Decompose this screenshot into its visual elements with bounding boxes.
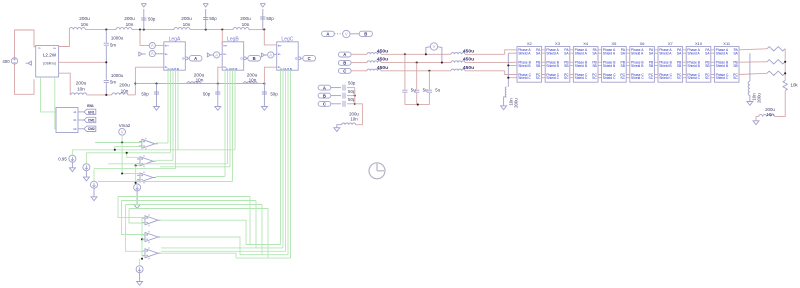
green: op2 +in feed xyxy=(127,153,140,158)
node dot op5 in xyxy=(141,238,143,240)
pin stub U2 out2 xyxy=(78,119,84,121)
wire: phase row A through blocks xyxy=(517,49,739,51)
wire: cap C bottom xyxy=(428,93,430,105)
green: midband corner 3 xyxy=(261,205,263,255)
wire: cap B to bus xyxy=(347,95,355,97)
green: Vma2 tail xyxy=(121,135,123,142)
ground L9 xyxy=(501,106,507,110)
capacitor C1 50p riser xyxy=(143,9,145,30)
capacitor C11 50p xyxy=(343,101,345,107)
svg-text:50p: 50p xyxy=(148,16,156,21)
node dot V2 right xyxy=(441,62,443,64)
svg-text:SA: SA xyxy=(592,52,597,56)
svg-text:200u: 200u xyxy=(79,16,90,21)
svg-text:X6: X6 xyxy=(640,41,646,46)
wire: V2 right lead xyxy=(438,47,442,63)
wire: LegA gate drop from rail xyxy=(140,30,149,46)
ammeter A1 xyxy=(149,43,155,49)
svg-text:B: B xyxy=(343,60,346,65)
node box A low xyxy=(318,85,331,90)
svg-text:SC: SC xyxy=(649,76,654,80)
green: left vert 2 xyxy=(122,201,143,235)
inductor LB2 450u coil xyxy=(451,61,465,63)
green: op4 -in stub xyxy=(142,222,145,224)
green: op5 +in stub xyxy=(142,234,145,236)
inductor L10 coil xyxy=(759,115,775,117)
svg-text:10n: 10n xyxy=(249,78,257,83)
svg-text:SB: SB xyxy=(592,64,597,68)
green: LegC bottom run 2 xyxy=(161,247,283,249)
node box C xyxy=(303,56,316,61)
green: midband corner 2 xyxy=(255,201,257,248)
node dot top rail cap C1 xyxy=(143,29,145,31)
wire: jog rail C down to Phase C xyxy=(505,71,517,75)
svg-text:Shield C: Shield C xyxy=(603,76,616,80)
svg-text:SC: SC xyxy=(564,76,569,80)
op-amp U7 xyxy=(142,231,161,243)
svg-text:CM1: CM1 xyxy=(88,118,95,122)
svg-text:10n: 10n xyxy=(196,78,204,83)
green: midband 1 xyxy=(118,196,250,198)
svg-text:SA: SA xyxy=(564,52,569,56)
wire: L12 to ground xyxy=(337,125,342,128)
block X11 cable section xyxy=(714,47,739,83)
inductor LC1 450u coil xyxy=(367,69,381,71)
op-amp U5 xyxy=(137,172,156,184)
svg-text:X11: X11 xyxy=(723,41,731,46)
node dot shield bus SC xyxy=(507,77,509,79)
svg-text:Shield B: Shield B xyxy=(631,64,644,68)
node dot low bus B xyxy=(354,95,356,97)
wire: rail B to Phase B xyxy=(505,61,517,63)
inductor L3 coil xyxy=(174,28,190,30)
ground L12 xyxy=(334,128,340,132)
svg-text:X3: X3 xyxy=(555,41,561,46)
wire: A3 to LegB pin2 xyxy=(220,53,223,55)
wire: source loop bottom xyxy=(15,64,35,94)
svg-text:B: B xyxy=(323,93,326,98)
wire: box A to cap xyxy=(331,87,341,89)
node box B low xyxy=(318,93,331,98)
node dot bottom rail cap column xyxy=(105,94,107,96)
capacitor C3 50p plates xyxy=(260,17,265,19)
node dot low bus C xyxy=(354,103,356,105)
svg-text:50p: 50p xyxy=(266,16,274,21)
resistor R2 xyxy=(767,60,785,64)
svg-text:200u: 200u xyxy=(514,98,519,108)
green: op5 -in feed xyxy=(142,239,145,241)
green: midband corner 4 xyxy=(267,209,269,259)
voltage source V1 400 xyxy=(11,58,17,64)
wire: tap A down xyxy=(404,54,406,89)
svg-text:1000u: 1000u xyxy=(111,36,124,41)
wire: box C to cap xyxy=(331,103,341,105)
capacitor C8 50p stem xyxy=(263,84,265,107)
wire: U1 out to top rail riser xyxy=(59,30,70,47)
capacitor C2 50p riser xyxy=(205,9,207,30)
svg-text:EN1: EN1 xyxy=(87,104,94,108)
wire: tap B down xyxy=(416,63,418,90)
inductor L9 shield coil xyxy=(505,87,506,97)
wire: cap B bottom xyxy=(416,93,418,105)
svg-text:10k: 10k xyxy=(791,82,799,87)
svg-text:Vma2: Vma2 xyxy=(119,123,131,128)
ground B1 xyxy=(69,168,75,172)
wire: V2 left lead xyxy=(426,47,430,55)
svg-text:200u: 200u xyxy=(181,16,192,21)
wire: tap C down xyxy=(428,71,430,90)
node dot right bus R3 xyxy=(784,72,786,74)
wire: B2 to ground xyxy=(85,171,87,177)
voltmeter V1 circle xyxy=(343,30,350,37)
resistor R1 xyxy=(767,47,785,51)
svg-text:Shield A: Shield A xyxy=(546,52,559,56)
wire: rail C to coil xyxy=(351,70,367,72)
ammeter A2 xyxy=(149,51,155,57)
svg-text:10n: 10n xyxy=(242,22,250,27)
ammeter A4 xyxy=(268,52,274,58)
green: op3 -in feed xyxy=(136,180,140,182)
capacitor CB 5u plates xyxy=(414,90,419,92)
wire: top rail L2-L3 xyxy=(132,29,174,31)
capacitor CA 5u plates xyxy=(402,90,407,92)
wire: A to voltmeter dotted xyxy=(334,33,342,35)
svg-text:1000u: 1000u xyxy=(111,73,124,78)
svg-text:SB: SB xyxy=(536,64,541,68)
svg-text:L2.2W: L2.2W xyxy=(43,53,57,58)
svg-text:SB: SB xyxy=(705,64,710,68)
svg-text:200u: 200u xyxy=(119,83,130,88)
svg-text:450u: 450u xyxy=(377,57,388,63)
wire: B3 to ground xyxy=(93,188,95,197)
svg-text:in-: in- xyxy=(278,52,281,56)
svg-text:X10: X10 xyxy=(695,41,703,46)
green: midband 3 xyxy=(126,204,263,206)
capacitor C3 50p riser xyxy=(262,9,264,30)
svg-text:B: B xyxy=(364,31,367,36)
inductor L11 shield coil xyxy=(748,81,750,95)
flag EN1 xyxy=(84,109,96,114)
wire: low bus to L12 xyxy=(355,104,363,125)
green: S2 run to LegA xyxy=(86,152,170,154)
node dot right bus R2 xyxy=(784,61,786,63)
inductor L7 coil mid rail xyxy=(187,82,201,84)
wire LegB out to node box xyxy=(246,57,248,59)
inductor L12 coil xyxy=(342,123,356,125)
inductor L4 coil xyxy=(233,28,249,30)
svg-text:50p: 50p xyxy=(348,81,356,86)
svg-text:SC: SC xyxy=(705,76,710,80)
node dot top rail cap C2 xyxy=(205,29,207,31)
node dot top rail cap1 xyxy=(105,29,107,31)
inductor LA1 450u coil xyxy=(367,53,381,55)
green: op2 -in feed xyxy=(136,165,140,167)
wire: top rail L4 to LegC node xyxy=(249,29,264,31)
green: midband corner 1 xyxy=(249,197,251,245)
block LegB xyxy=(222,42,244,70)
svg-text:in-: in- xyxy=(223,52,226,56)
green bus LegB lines xyxy=(224,70,226,177)
wire: phase row C through blocks xyxy=(517,74,739,76)
green: midband 4 xyxy=(129,208,268,210)
node dot top rail LegC drop xyxy=(263,29,265,31)
node box B xyxy=(248,56,261,61)
capacitor C2 50p plates xyxy=(203,18,208,20)
source B3 xyxy=(91,181,98,188)
svg-text:B: B xyxy=(253,56,256,61)
green: Vma2 to op1 +in xyxy=(95,142,142,144)
svg-text:A: A xyxy=(343,52,346,57)
node dot rail C tap xyxy=(428,70,430,72)
svg-text:X5: X5 xyxy=(611,41,617,46)
svg-text:5m: 5m xyxy=(110,43,116,48)
svg-text:LegC: LegC xyxy=(281,37,293,43)
green: op6 out wrap xyxy=(160,253,236,258)
green: S1 riser xyxy=(71,150,73,155)
node dot mid rail capA xyxy=(155,82,157,84)
svg-text:X4: X4 xyxy=(583,41,589,46)
svg-text:Shield C: Shield C xyxy=(659,76,672,80)
flag CM1 xyxy=(84,117,96,122)
node box B top xyxy=(359,31,372,36)
svg-text:10n: 10n xyxy=(766,112,774,117)
svg-text:A: A xyxy=(326,31,329,36)
wire: cap C to bus xyxy=(347,103,355,105)
pin circle LegB out xyxy=(244,57,247,60)
svg-text:in+: in+ xyxy=(223,44,227,48)
wire: shield coil to gnd xyxy=(504,97,507,106)
svg-text:SC: SC xyxy=(592,76,597,80)
wire: U1 mid-right to cap column xyxy=(59,61,107,63)
svg-text:SB: SB xyxy=(649,64,654,68)
capacitor C4 1000u plates xyxy=(104,43,109,45)
wire: phase row B through blocks xyxy=(517,61,739,63)
green bus LegA lines xyxy=(167,70,169,143)
ground flag top C2 xyxy=(203,4,208,7)
svg-text:SB: SB xyxy=(564,64,569,68)
green: I2 feed xyxy=(139,259,141,266)
svg-text:X7: X7 xyxy=(668,41,674,46)
pin arrow left of A2 xyxy=(139,52,146,56)
svg-text:Shield C: Shield C xyxy=(631,76,644,80)
wire: LegA pin3 run xyxy=(135,66,163,68)
node dot op3 +in xyxy=(121,172,123,174)
green: op1 -in feed xyxy=(115,147,142,150)
op-amp U8 xyxy=(142,247,161,259)
svg-text:Shield A: Shield A xyxy=(716,52,729,56)
resistor R3 xyxy=(767,71,785,75)
svg-text:V: V xyxy=(345,32,348,37)
green: LegC bottom run 5 xyxy=(236,257,291,259)
svg-text:Shield A: Shield A xyxy=(575,52,588,56)
block X3 cable section xyxy=(545,47,570,83)
capacitor C5 1000u plates xyxy=(104,80,109,82)
block X5 cable section xyxy=(602,47,627,83)
wire: jog rail A up to Phase A xyxy=(505,50,517,55)
wire: rail C run xyxy=(381,70,451,72)
svg-text:SC: SC xyxy=(536,76,541,80)
green: S2 riser xyxy=(85,153,87,164)
current source I2 xyxy=(136,266,143,273)
pin arrow U1 mid input xyxy=(26,61,32,65)
ground L10 xyxy=(753,121,759,125)
wire: low bus vertical xyxy=(354,88,356,104)
wire: shield row A through blocks xyxy=(508,52,739,54)
inductor L1 coil xyxy=(69,28,85,30)
node dot mid rail capB xyxy=(217,82,219,84)
wire: rail A to X2 xyxy=(465,53,505,55)
inductor LA2 450u coil xyxy=(451,53,465,55)
wire: A2 to LegA pin2 xyxy=(156,53,164,55)
wire: phase B to R2 xyxy=(739,61,767,63)
wire: L10 to ground xyxy=(756,117,759,121)
svg-text:50p: 50p xyxy=(203,91,211,96)
svg-text:450u: 450u xyxy=(377,65,388,71)
node dot Vma2 tap xyxy=(121,141,123,143)
inductor L5 coil xyxy=(71,93,87,95)
svg-text:200u: 200u xyxy=(757,93,762,103)
inductor LC2 450u coil xyxy=(451,69,465,71)
voltmeter V2 circle xyxy=(430,43,437,50)
green: op1 out to LegA xyxy=(156,142,168,144)
block X4 cable section xyxy=(573,47,598,83)
svg-text:A: A xyxy=(194,56,197,61)
wire: cap column upper xyxy=(105,30,107,43)
svg-text:10n: 10n xyxy=(126,22,134,27)
svg-text:5u: 5u xyxy=(435,88,440,93)
svg-text:LegA: LegA xyxy=(169,37,181,43)
node dot mid rail capC xyxy=(263,82,265,84)
green: LegB turn row 3 xyxy=(98,181,233,183)
svg-text:Shield C: Shield C xyxy=(687,76,700,80)
wire: LegC drop from rail xyxy=(264,30,276,45)
wire: LegC pin3 run xyxy=(264,67,276,83)
svg-text:-C OUT B: -C OUT B xyxy=(225,67,237,71)
wire: left shield bus xyxy=(507,53,509,87)
svg-text:Shield A: Shield A xyxy=(659,52,672,56)
svg-text:200u: 200u xyxy=(124,16,135,21)
svg-text:SA: SA xyxy=(677,52,682,56)
svg-text:Shield B: Shield B xyxy=(716,64,729,68)
node dot rail A tap xyxy=(404,53,406,55)
node dot V2 left xyxy=(425,53,427,55)
green: LegC bottom run 3 xyxy=(161,250,286,252)
svg-text:SC: SC xyxy=(620,76,625,80)
svg-text:(OSM lo): (OSM lo) xyxy=(43,62,56,66)
green: LegB turn row 1 xyxy=(108,163,228,165)
wire: bottom rail to riser xyxy=(128,94,136,96)
wire: I2 to ground xyxy=(139,273,141,282)
svg-text:10n: 10n xyxy=(183,22,191,27)
wire: top rail L3-L4 xyxy=(190,29,233,31)
green: op3 out to LegB xyxy=(156,176,225,178)
block X7 cable section xyxy=(658,47,683,83)
pin arrow left of A4 xyxy=(261,53,267,57)
green: LegC bottom run 4 xyxy=(240,254,288,256)
svg-text:X2: X2 xyxy=(527,41,533,46)
capacitor C7 50p plates xyxy=(215,92,220,94)
wire: cap column mid xyxy=(105,46,107,80)
svg-text:450u: 450u xyxy=(463,65,474,71)
node dot rail B tap xyxy=(416,62,418,64)
svg-text:Shield A: Shield A xyxy=(603,52,616,56)
block LegA xyxy=(164,42,186,70)
wire: LegB pin3 run xyxy=(218,67,222,83)
node dot op6 in xyxy=(141,258,143,260)
op-amp U4 xyxy=(137,155,156,167)
svg-text:V: V xyxy=(433,44,436,49)
green: mid column xyxy=(135,166,137,183)
green: LegB turn row 2 xyxy=(160,166,230,168)
source B1 0.95 xyxy=(69,155,76,162)
ground C8 xyxy=(261,107,267,111)
svg-text:Shield B: Shield B xyxy=(575,64,588,68)
wire LegC out to node box xyxy=(301,57,303,59)
node dot op2 +in xyxy=(126,152,128,154)
green: S3 run to LegA xyxy=(94,168,176,170)
svg-text:in+: in+ xyxy=(165,44,169,48)
green: S3 riser xyxy=(93,169,95,182)
inductor L8 coil mid rail xyxy=(243,82,257,84)
svg-text:5m: 5m xyxy=(110,79,116,84)
svg-text:0.95: 0.95 xyxy=(58,156,67,161)
node dot shield bus SB xyxy=(507,64,509,66)
svg-text:200u: 200u xyxy=(240,16,251,21)
wire: phase A to R1 xyxy=(739,49,767,50)
inductor LB1 450u coil xyxy=(367,61,381,63)
block X10 cable section xyxy=(686,47,711,83)
green: group2 in column xyxy=(141,217,143,256)
wire: rail B to X2 xyxy=(465,62,505,64)
svg-text:Shield A: Shield A xyxy=(631,52,644,56)
green: U1 gate wire 1 xyxy=(41,77,57,112)
node dot mid rail riser xyxy=(134,82,136,84)
svg-text:C: C xyxy=(343,68,346,73)
wire: cap A bottom xyxy=(404,93,406,105)
svg-text:Shield C: Shield C xyxy=(518,76,531,80)
block X2 cable section xyxy=(517,47,542,83)
capacitor C1 50p plates xyxy=(141,18,146,20)
ground C6 xyxy=(154,107,160,111)
wire: rail C to X2 xyxy=(465,70,505,72)
green: left vert 1 xyxy=(118,197,142,218)
block LegC xyxy=(277,42,299,70)
wire: rail A run xyxy=(381,53,451,55)
svg-text:200u: 200u xyxy=(76,80,87,85)
svg-text:EN1: EN1 xyxy=(88,110,94,114)
capacitor CC 5u plates xyxy=(427,90,432,92)
capacitor C10 50p xyxy=(343,93,345,99)
flag CM2 xyxy=(84,126,96,131)
wire: I1 to ground xyxy=(136,191,138,205)
wire: phase C to R3 xyxy=(739,73,767,74)
svg-text:Shield A: Shield A xyxy=(687,52,700,56)
svg-text:Shield B: Shield B xyxy=(518,64,531,68)
svg-text:Shield B: Shield B xyxy=(659,64,672,68)
green: midband 2 xyxy=(122,200,257,202)
ground C7 xyxy=(215,107,221,111)
green: U1 gate wire 2 xyxy=(55,77,56,129)
pin stub U2 out3 xyxy=(78,128,84,130)
wire: rail B run xyxy=(381,62,451,64)
svg-text:450u: 450u xyxy=(463,57,474,63)
node box B mid xyxy=(338,60,351,65)
wire: cap column lower xyxy=(105,83,107,95)
node dot cap column mid xyxy=(105,61,107,63)
svg-text:in+: in+ xyxy=(278,44,282,48)
wire: shield row C through blocks xyxy=(508,77,739,79)
wire: U1 bottom-right to bottom rail xyxy=(59,73,71,95)
